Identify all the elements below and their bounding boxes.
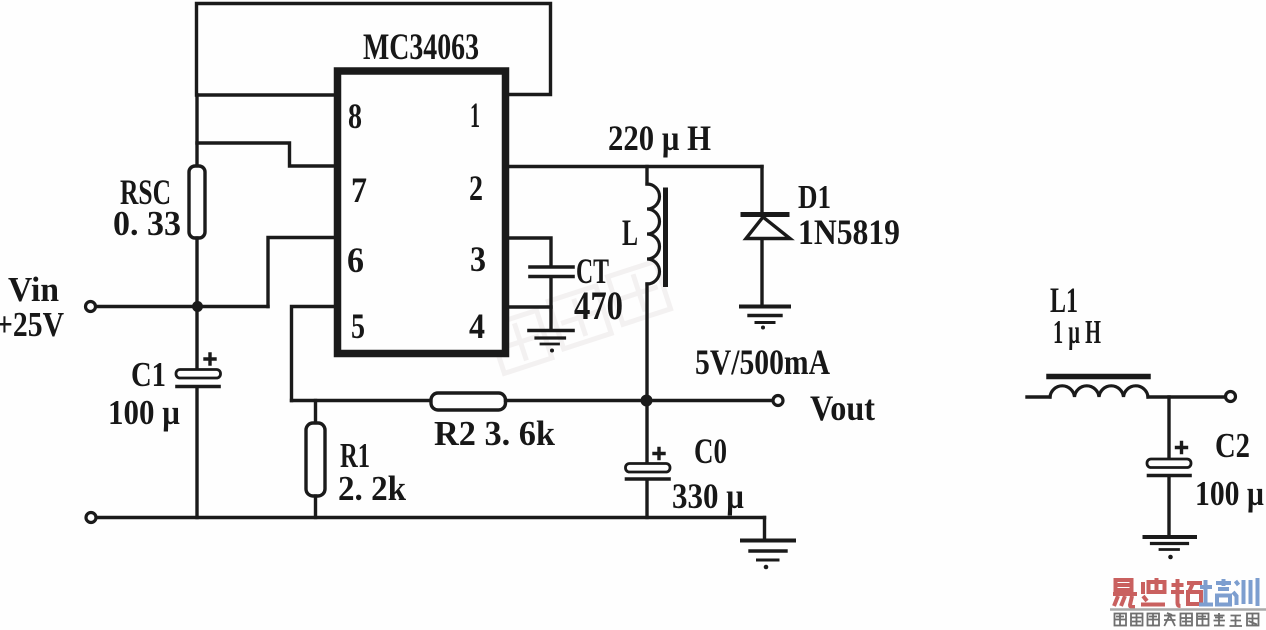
svg-text:C1: C1 bbox=[131, 355, 166, 394]
svg-text:+25V: +25V bbox=[0, 305, 64, 344]
svg-text:MC34063: MC34063 bbox=[363, 27, 479, 68]
wire: pin 7 branch bbox=[197, 143, 334, 166]
wire: C1 bottom lead bbox=[195, 389, 198, 518]
capacitor C1 bbox=[176, 354, 221, 387]
svg-text:470: 470 bbox=[574, 283, 623, 328]
wire: to Vout terminal bbox=[647, 399, 773, 402]
capacitor CT bbox=[530, 267, 573, 329]
wire: pin 5 bbox=[292, 307, 335, 401]
node junction Vin/RSC/C1 bbox=[192, 301, 203, 312]
wire: C2 top lead bbox=[1167, 397, 1170, 459]
resistor R1 bbox=[306, 401, 325, 518]
terminal L1 right bbox=[1226, 392, 1236, 402]
svg-text:5: 5 bbox=[351, 306, 365, 346]
ground under C0 rail bbox=[742, 518, 794, 570]
node junction Vout bbox=[641, 395, 653, 407]
logo subtitle glyphs bbox=[1115, 613, 1259, 626]
IC U1 MC34063 box bbox=[338, 71, 506, 354]
svg-text:6: 6 bbox=[347, 240, 364, 280]
wire: left rail upper (RSC top lead) bbox=[195, 95, 198, 166]
diode D1 bbox=[743, 167, 790, 306]
terminal Vout bbox=[773, 396, 783, 406]
logo underline bbox=[1110, 608, 1266, 611]
watermark ghost bbox=[486, 261, 674, 373]
capacitor C0 bbox=[626, 401, 671, 518]
svg-text:2: 2 bbox=[469, 168, 483, 208]
wire: RSC bottom lead bbox=[195, 238, 198, 307]
svg-text:1N5819: 1N5819 bbox=[798, 212, 900, 252]
wire: pin 6 bbox=[268, 238, 334, 307]
svg-text:Vin: Vin bbox=[8, 270, 59, 309]
wire: feedback line left bbox=[292, 399, 432, 402]
ground under C2 bbox=[1145, 537, 1196, 559]
svg-text:Vout: Vout bbox=[810, 388, 875, 428]
svg-text:7: 7 bbox=[351, 170, 367, 210]
svg-text:8: 8 bbox=[348, 96, 362, 136]
wire: C1 top lead bbox=[195, 307, 198, 371]
svg-text:100 µ: 100 µ bbox=[108, 393, 180, 432]
wire: pin 2 to diode bbox=[509, 165, 762, 168]
svg-text:C2: C2 bbox=[1215, 426, 1250, 465]
wire: feedback line right bbox=[506, 399, 647, 402]
wire: top loop from pin 1 to left rail bbox=[197, 4, 551, 96]
wire: pin 8 bbox=[197, 93, 334, 96]
filter circuit right: inductor L1 bbox=[1027, 377, 1225, 398]
svg-text:100 µ: 100 µ bbox=[1195, 474, 1264, 513]
svg-text:2. 2k: 2. 2k bbox=[338, 469, 407, 508]
svg-text:D1: D1 bbox=[798, 179, 831, 216]
ground under CT bbox=[529, 331, 573, 353]
svg-text:220 µ H: 220 µ H bbox=[608, 118, 711, 158]
wire: pin 4 bbox=[509, 305, 551, 308]
svg-text:3: 3 bbox=[470, 239, 486, 279]
svg-text:1 µ H: 1 µ H bbox=[1053, 314, 1101, 351]
svg-text:0. 33: 0. 33 bbox=[113, 204, 181, 243]
logo peixun blue chars bbox=[1199, 578, 1258, 606]
svg-text:L: L bbox=[622, 213, 638, 254]
inductor L bbox=[647, 167, 666, 401]
svg-text:4: 4 bbox=[469, 306, 485, 346]
wire: Vin to pin6 riser bbox=[96, 305, 268, 308]
wire: bottom rail bbox=[97, 516, 765, 519]
svg-text:R2 3. 6k: R2 3. 6k bbox=[434, 414, 556, 453]
svg-text:C0: C0 bbox=[694, 431, 727, 471]
svg-text:5V/500mA: 5V/500mA bbox=[695, 342, 830, 382]
capacitor C2 bbox=[1147, 443, 1191, 537]
svg-text:330 µ: 330 µ bbox=[672, 476, 744, 516]
logo yiditop red chars bbox=[1113, 578, 1202, 607]
resistor R2 bbox=[431, 393, 506, 410]
ground under D1 bbox=[741, 307, 789, 330]
resistor RSC bbox=[189, 166, 205, 238]
wire: pin 3 bbox=[509, 238, 551, 265]
terminal ground-left bbox=[86, 513, 96, 523]
svg-text:1: 1 bbox=[470, 95, 480, 135]
terminal Vin bbox=[86, 302, 96, 312]
